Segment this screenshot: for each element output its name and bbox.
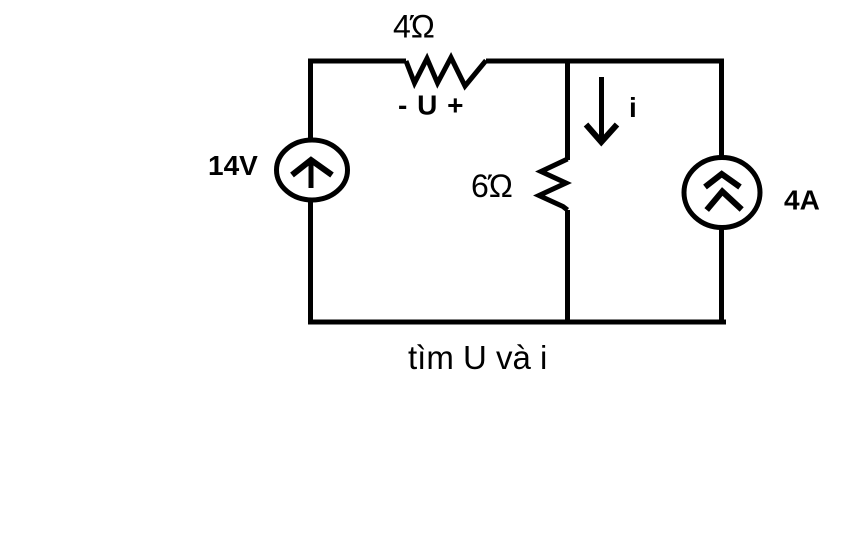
svg-text:14V: 14V [208,150,258,181]
wire top-left segment (node A to R1) [308,59,406,64]
wire middle branch upper (top wire down to R2) [565,59,570,161]
voltage source V1 arrow (up) [309,161,314,188]
wire top-right segment (R1 to node B) [486,58,724,64]
svg-text:- U +: - U + [398,90,464,121]
resistor R2 6Ω (vertical zigzag) [539,159,568,210]
svg-text:i: i [629,92,637,123]
current arrow i (down) [599,77,604,140]
svg-text:6Ώ: 6Ώ [471,168,513,204]
wire left branch lower (V1 down to bottom wire) [308,199,313,325]
svg-text:4Ώ: 4Ώ [393,9,435,45]
wire middle branch lower (R2 down to bottom wire) [565,210,570,325]
svg-text:4A: 4A [784,185,820,216]
wire right branch upper (top wire down to I1) [719,59,724,159]
voltage source V1 circle [277,140,348,200]
svg-text:tìm U và i: tìm U và i [408,339,547,376]
wire bottom (node C to node D) [308,320,726,325]
wire left branch upper (top wire down to V1) [308,59,313,142]
current source I1 circle [684,158,760,228]
wire right branch lower (I1 down to bottom wire) [719,227,724,325]
resistor R1 4Ω (horizontal zigzag) [406,58,486,87]
current source I1 double chevron (up) [705,174,740,187]
